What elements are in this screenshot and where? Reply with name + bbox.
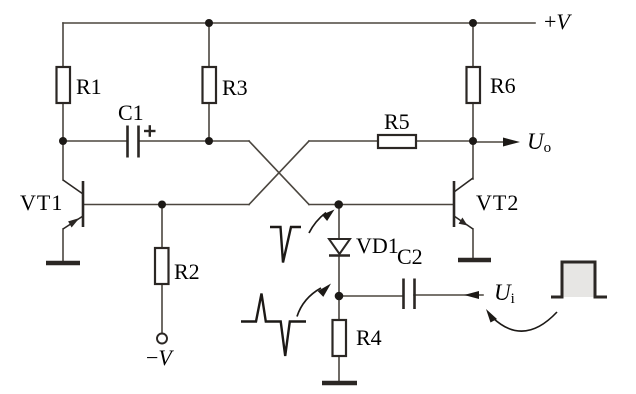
ground R4	[322, 381, 357, 386]
label -V	[146, 345, 172, 371]
wire VD1 anode	[338, 205, 340, 240]
diode VD1	[329, 239, 350, 256]
wire cross diagonal VT1-base to R5	[249, 141, 309, 205]
transistor VT1	[63, 180, 83, 229]
resistor R3	[203, 67, 217, 103]
terminal -V circle	[157, 334, 167, 344]
label VT2	[476, 190, 519, 216]
node VT2 base VD1	[334, 200, 343, 209]
wire VT1 emitter to ground	[62, 229, 64, 261]
resistor R6	[467, 67, 481, 103]
node top rail R6	[469, 19, 477, 27]
wire output Uo	[473, 141, 512, 143]
wire R3 bottom	[208, 103, 210, 141]
wire VD1 cathode to node	[338, 256, 340, 296]
curved arrow from input pulse to Ui	[493, 312, 557, 331]
label +V	[544, 9, 570, 35]
polarity plus of C1	[144, 125, 156, 137]
ground VT2 emitter	[458, 258, 491, 263]
node VT1 collector C1	[59, 137, 67, 145]
node VT1 base R2	[158, 201, 166, 209]
node VD1 C2 R4	[335, 292, 344, 301]
label R2	[174, 259, 200, 285]
label Ui	[494, 280, 515, 308]
capacitor C1	[128, 126, 139, 158]
wire R3 top	[208, 23, 210, 67]
wire R4 bottom to ground	[338, 356, 340, 381]
resistor R2	[155, 248, 169, 284]
wire R4 top	[338, 296, 340, 320]
label VD1	[356, 233, 399, 259]
label VT1	[20, 190, 63, 216]
wire C1 right to cross	[139, 140, 249, 142]
resistor R4	[333, 320, 347, 356]
wire VT2 base	[309, 204, 454, 206]
label C1	[118, 100, 144, 126]
transistor VT2	[454, 178, 473, 229]
wire R6 bottom to VT2 collector	[472, 103, 474, 141]
wire C2 right to Ui	[414, 294, 483, 296]
node top rail R3	[205, 19, 213, 27]
wire R6 top	[472, 23, 474, 67]
wire R1 bottom to VT1 collector	[62, 103, 64, 180]
label C2	[397, 244, 423, 270]
label Uo	[527, 129, 551, 157]
label R1	[76, 74, 102, 100]
wire R5 left	[309, 140, 378, 142]
wire VT2 emitter to ground	[472, 229, 474, 258]
resistor R1	[57, 67, 71, 103]
label R5	[384, 109, 410, 135]
label R3	[222, 75, 248, 101]
wire cross diagonal VT1-collector to VT2-base	[249, 141, 309, 205]
wire node to C2	[339, 295, 403, 297]
waveform differentiated spikes at trigger node	[241, 294, 306, 357]
wire R2 bottom to -V terminal	[161, 284, 163, 334]
node R3 bottom	[205, 137, 213, 145]
wire C1 left	[63, 140, 127, 142]
wire R2 top	[161, 205, 163, 249]
waveform negative pulse at VT2 base	[270, 227, 301, 263]
output arrow Uo	[503, 138, 520, 147]
input arrow Ui	[464, 291, 479, 299]
wire R5 right	[416, 140, 473, 142]
resistor R5	[378, 135, 416, 148]
wire VT2 collector vertical	[472, 141, 474, 179]
label R6	[490, 73, 516, 99]
node VT2 collector R5	[469, 137, 477, 145]
curved arrow to VT2 base node	[309, 213, 326, 234]
curved arrow to trigger node	[297, 288, 321, 317]
ground VT1 emitter	[46, 261, 80, 266]
label R4	[356, 325, 382, 351]
input pulse waveform Ui	[551, 262, 607, 297]
wire VT1 base	[83, 204, 249, 206]
capacitor C2	[404, 279, 415, 310]
wire R1 top	[62, 23, 64, 67]
wire top rail +V	[63, 22, 535, 24]
